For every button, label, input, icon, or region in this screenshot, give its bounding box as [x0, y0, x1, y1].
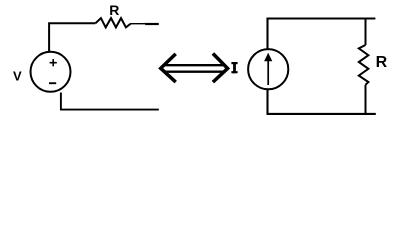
svg-text:R: R — [376, 54, 388, 71]
svg-text:R: R — [109, 2, 119, 18]
svg-text:V: V — [13, 69, 22, 84]
